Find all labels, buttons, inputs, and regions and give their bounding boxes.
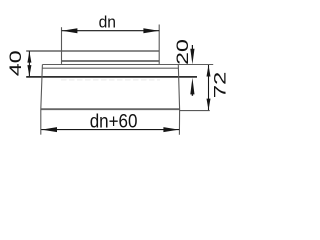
left skirt wall + ext [41,65,43,135]
right skirt wall + ext [178,65,179,135]
dn+60 dimension [41,129,179,131]
collar right wall + dn ext [158,25,160,64]
svg-text:dn+60: dn+60 [90,112,138,133]
dark bottom edge [26,76,197,78]
face top line [42,64,213,66]
40 dimension [28,51,30,76]
72 dimension [208,65,210,110]
svg-text:40: 40 [7,50,25,76]
dn dimension [62,30,160,32]
20 dimension (outside arrows) [191,45,193,52]
collar left wall + dn ext [61,27,63,64]
svg-text:20: 20 [174,39,192,65]
faint hidden line [61,79,160,81]
72 bottom extension [180,110,210,112]
svg-text:dn: dn [99,14,116,32]
skirt bottom [41,108,180,110]
svg-text:72: 72 [211,72,229,99]
face second line [42,67,178,69]
part outline: collar top [26,50,159,52]
collar rim bottom [62,60,160,62]
